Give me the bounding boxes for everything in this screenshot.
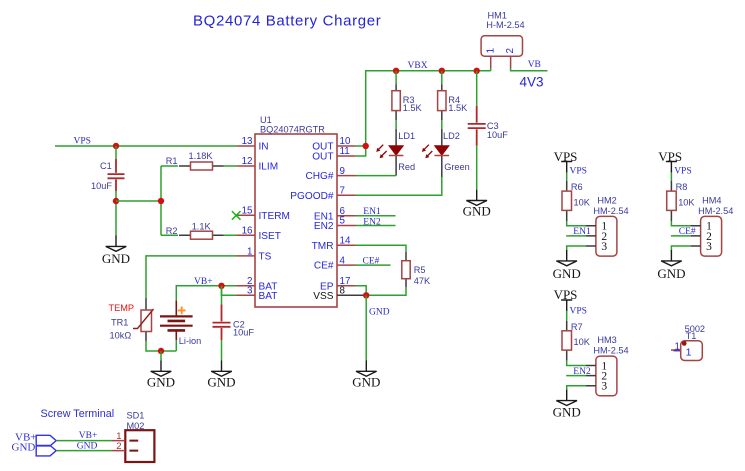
U1 pin 16 ISET [237,225,281,241]
wire R8 to HM4 pin1 [671,221,690,226]
resistor R8 [667,181,696,221]
resistor R5 [402,252,431,287]
wire C1 top [115,146,117,159]
ground HM4 [661,250,682,266]
svg-text:10K: 10K [574,197,591,207]
wire GND to SD1 pin2 [56,450,111,452]
svg-text:CHG#: CHG# [305,171,333,182]
wire EP to VSS junction [356,286,367,296]
connector HM4 [691,196,734,257]
capacitor C2 [213,304,255,340]
svg-text:12: 12 [242,156,253,167]
svg-text:BAT: BAT [259,291,278,302]
wire HM3 pin3 to GND [567,386,586,390]
svg-text:1.5K: 1.5K [403,103,423,113]
svg-text:VSS: VSS [313,291,333,302]
wire VPS to U1 pin IN [55,145,237,147]
U1 pin 6 EN1 [314,206,356,222]
capacitor C1 [91,159,125,191]
U1 pin 15 ITERM [237,205,290,221]
svg-text:ISET: ISET [259,231,281,242]
svg-text:3: 3 [706,241,712,253]
ground C3 [466,190,487,206]
junction bottom rail [158,348,164,354]
svg-text:LD1: LD1 [398,131,415,141]
svg-text:VB+: VB+ [194,277,213,287]
wire R5 to VSS junction [366,287,406,295]
wire divider branch [116,166,178,235]
connector HM3 [586,335,629,396]
svg-text:VB: VB [528,60,541,70]
junction C1/R-divider [113,198,119,204]
power VPS (HM3 column) [561,300,572,311]
svg-text:15: 15 [242,205,253,216]
thermistor TR1 [109,298,154,341]
svg-text:T1: T1 [686,331,697,341]
svg-text:HM-2.54: HM-2.54 [698,206,733,216]
svg-text:11: 11 [340,146,350,157]
svg-text:VPS: VPS [554,149,578,164]
wire C1 to GND [115,191,117,236]
svg-text:TS: TS [259,252,272,263]
resistor R1 [166,151,224,170]
svg-text:9: 9 [340,166,345,177]
svg-text:8: 8 [340,286,346,297]
ground HM2 [556,250,577,266]
wire R1 to ILIM [224,165,237,167]
svg-text:R8: R8 [676,182,688,192]
connector HM2 [586,196,629,257]
global label GND [12,441,57,456]
junction C3 top [474,68,480,74]
svg-text:HM4: HM4 [702,196,721,206]
wire EN2 stub [356,225,396,227]
svg-text:1.18K: 1.18K [189,151,214,161]
svg-text:47K: 47K [414,276,431,286]
svg-text:C1: C1 [100,161,112,171]
svg-text:BQ24074RGTR: BQ24074RGTR [260,124,325,134]
svg-text:Green: Green [444,162,470,172]
svg-text:CE#: CE# [363,257,380,267]
U1 pin 12 ILIM [237,156,279,173]
svg-text:VPS: VPS [570,306,587,316]
svg-text:ITERM: ITERM [259,211,290,222]
svg-text:10uF: 10uF [233,328,254,338]
capacitor C3 [468,106,509,146]
U1 pin 13 IN [237,136,269,153]
wire HM4 pin3 to GND [671,246,690,250]
svg-text:GND: GND [553,405,581,420]
svg-text:7: 7 [340,186,345,197]
svg-text:4: 4 [340,255,346,266]
wire VB+ to SD1 pin1 [56,440,111,442]
svg-text:BQ24074 Battery Charger: BQ24074 Battery Charger [193,13,381,30]
wire CE# stub [356,264,391,266]
U1 pin 1 TS [237,246,272,262]
LED LD2 [422,120,470,177]
resistor R7 [562,321,591,361]
junction VSS node [363,292,369,298]
wire HM1 pin1 drop [490,68,492,71]
U1 pin 9 CHG# [305,166,355,182]
svg-text:TMR: TMR [312,241,334,252]
svg-text:VPS: VPS [658,149,682,164]
U1 pin 8 VSS [313,286,366,303]
wire HM4 pin2 stub [671,235,691,237]
svg-text:1.5K: 1.5K [448,103,468,113]
U1 pin 5 EN2 [314,216,356,232]
resistor R3 [392,71,423,120]
svg-text:2: 2 [116,441,121,452]
U1 pin 3 BAT [237,286,278,303]
svg-text:VPS: VPS [74,137,91,147]
ground C1 [106,236,127,252]
svg-text:3: 3 [601,241,607,253]
wire TMR to R5 [356,245,407,252]
junction R4 top [439,68,445,74]
svg-text:VPS: VPS [674,167,691,177]
U1 pin 14 TMR [312,236,356,252]
svg-text:GND: GND [102,251,130,266]
svg-text:EN1: EN1 [363,207,381,217]
resistor R6 [562,181,591,221]
svg-text:EN2: EN2 [363,218,381,228]
wire HM1 pin2 to VB [511,68,548,71]
wire CHG# to LD1 [356,175,397,177]
wire BAT pin3 net [222,286,237,296]
ground HM3 [556,390,577,406]
svg-text:GND: GND [207,374,235,389]
connector SD1 M02 [111,410,154,462]
svg-text:3: 3 [247,286,253,297]
svg-text:5: 5 [340,216,346,227]
U1 pin 2 BAT [237,276,278,293]
svg-text:GND: GND [657,266,685,281]
svg-text:VBX: VBX [408,61,428,71]
wire C3 to GND [476,146,478,190]
svg-text:13: 13 [242,136,253,147]
svg-text:H-M-2.54: H-M-2.54 [486,20,524,30]
svg-text:GND: GND [12,441,36,453]
svg-text:VB+: VB+ [79,431,98,441]
wire R6 to HM2 pin1 [567,221,586,226]
svg-text:R5: R5 [414,265,426,275]
wire TS net [146,256,237,298]
U1 pin 10 OUT [312,136,355,153]
svg-text:TR1: TR1 [111,317,128,327]
wire HM2 pin3 to GND [567,246,586,250]
U1 pin 7 PGOOD# [290,186,355,202]
svg-text:1: 1 [247,246,252,257]
no-connect X on pin 15 [232,211,241,220]
wire VSS node to GND [365,295,367,360]
svg-text:16: 16 [242,225,253,236]
op-amp U1 BQ24074RGTR body [255,115,337,307]
wire VPS to R8 [670,173,672,181]
svg-text:IN: IN [259,142,269,153]
svg-text:GND: GND [77,442,98,452]
ground TR1/battery [151,360,172,376]
junction VPS/C1 [113,143,119,149]
svg-text:GND: GND [352,374,380,389]
svg-text:Screw Terminal: Screw Terminal [41,408,115,420]
junction OUT pins [363,143,369,149]
svg-text:R7: R7 [571,322,583,332]
junction divider [158,198,164,204]
wire VPS to R6 [566,173,568,181]
svg-text:U1: U1 [260,115,272,125]
ground C2 [211,360,232,376]
power VPS (HM4 column) [666,162,677,173]
test point T1 5002 [671,324,705,360]
battery TR1 Li-ion [160,301,201,347]
svg-text:10uF: 10uF [487,130,508,140]
wire R2 to ISET [224,234,237,236]
svg-text:4V3: 4V3 [520,74,544,89]
global label VB+ [15,431,56,446]
svg-text:GND: GND [463,204,491,219]
svg-text:HM2: HM2 [597,196,616,206]
svg-text:10K: 10K [678,197,695,207]
svg-text:14: 14 [340,236,351,247]
wire HM3 pin2 stub [566,375,586,377]
svg-text:R2: R2 [166,226,178,236]
svg-text:LD2: LD2 [443,131,460,141]
svg-text:10K: 10K [574,337,591,347]
U1 pin 17 EP [320,276,355,293]
resistor R2 [166,222,224,240]
svg-text:GND: GND [553,266,581,281]
wire rail to GND [160,351,162,360]
svg-text:PGOOD#: PGOOD# [290,191,334,202]
U1 pin 4 CE# [314,255,356,271]
svg-text:10uF: 10uF [91,181,112,191]
power VPS (HM2 column) [561,162,572,173]
svg-text:GND: GND [369,308,390,318]
wire OUT pins to VBX rail [356,71,491,156]
wire C3 drop [476,71,478,106]
wire PGOOD# to LD2 [356,177,442,195]
svg-text:2: 2 [505,48,516,53]
svg-text:Li-ion: Li-ion [179,336,201,346]
junction R3 top [393,68,399,74]
wire EN1 stub [356,215,396,217]
svg-text:HM-2.54: HM-2.54 [593,346,628,356]
svg-text:1: 1 [686,347,692,359]
svg-text:ILIM: ILIM [259,162,279,173]
wire R7 to HM3 pin1 [567,361,586,366]
U1 pin 11 OUT [312,146,355,163]
ground U1 VSS [356,360,377,376]
svg-text:OUT: OUT [312,152,333,163]
svg-text:Red: Red [398,162,415,172]
svg-text:EN2: EN2 [314,221,334,232]
svg-text:R1: R1 [166,156,178,166]
LED LD1 [376,120,415,176]
svg-text:3: 3 [601,381,607,393]
wire C2 branch [221,286,223,305]
wire battery bottom [175,340,177,351]
svg-text:10kΩ: 10kΩ [110,330,132,340]
svg-text:HM-2.54: HM-2.54 [593,206,628,216]
svg-text:GND: GND [147,374,175,389]
svg-text:R6: R6 [571,182,583,192]
svg-text:TEMP: TEMP [109,303,135,313]
wire TR1 to bottom rail [146,341,176,351]
connector HM1 [481,10,524,68]
svg-text:HM1: HM1 [488,10,507,20]
wire C2 to GND [221,340,223,360]
wire HM2 pin2 stub [566,235,586,237]
svg-text:CE#: CE# [314,261,334,272]
svg-text:1: 1 [485,48,496,53]
junction BAT/C2 [218,283,224,289]
svg-text:HM3: HM3 [597,335,616,345]
svg-text:VPS: VPS [570,167,587,177]
wire BAT pin2 net [176,286,236,301]
svg-text:1.1K: 1.1K [192,222,212,232]
svg-text:VPS: VPS [554,287,578,302]
resistor R4 [438,71,469,120]
wire VPS to R7 [566,311,568,320]
svg-text:SD1: SD1 [127,410,145,420]
